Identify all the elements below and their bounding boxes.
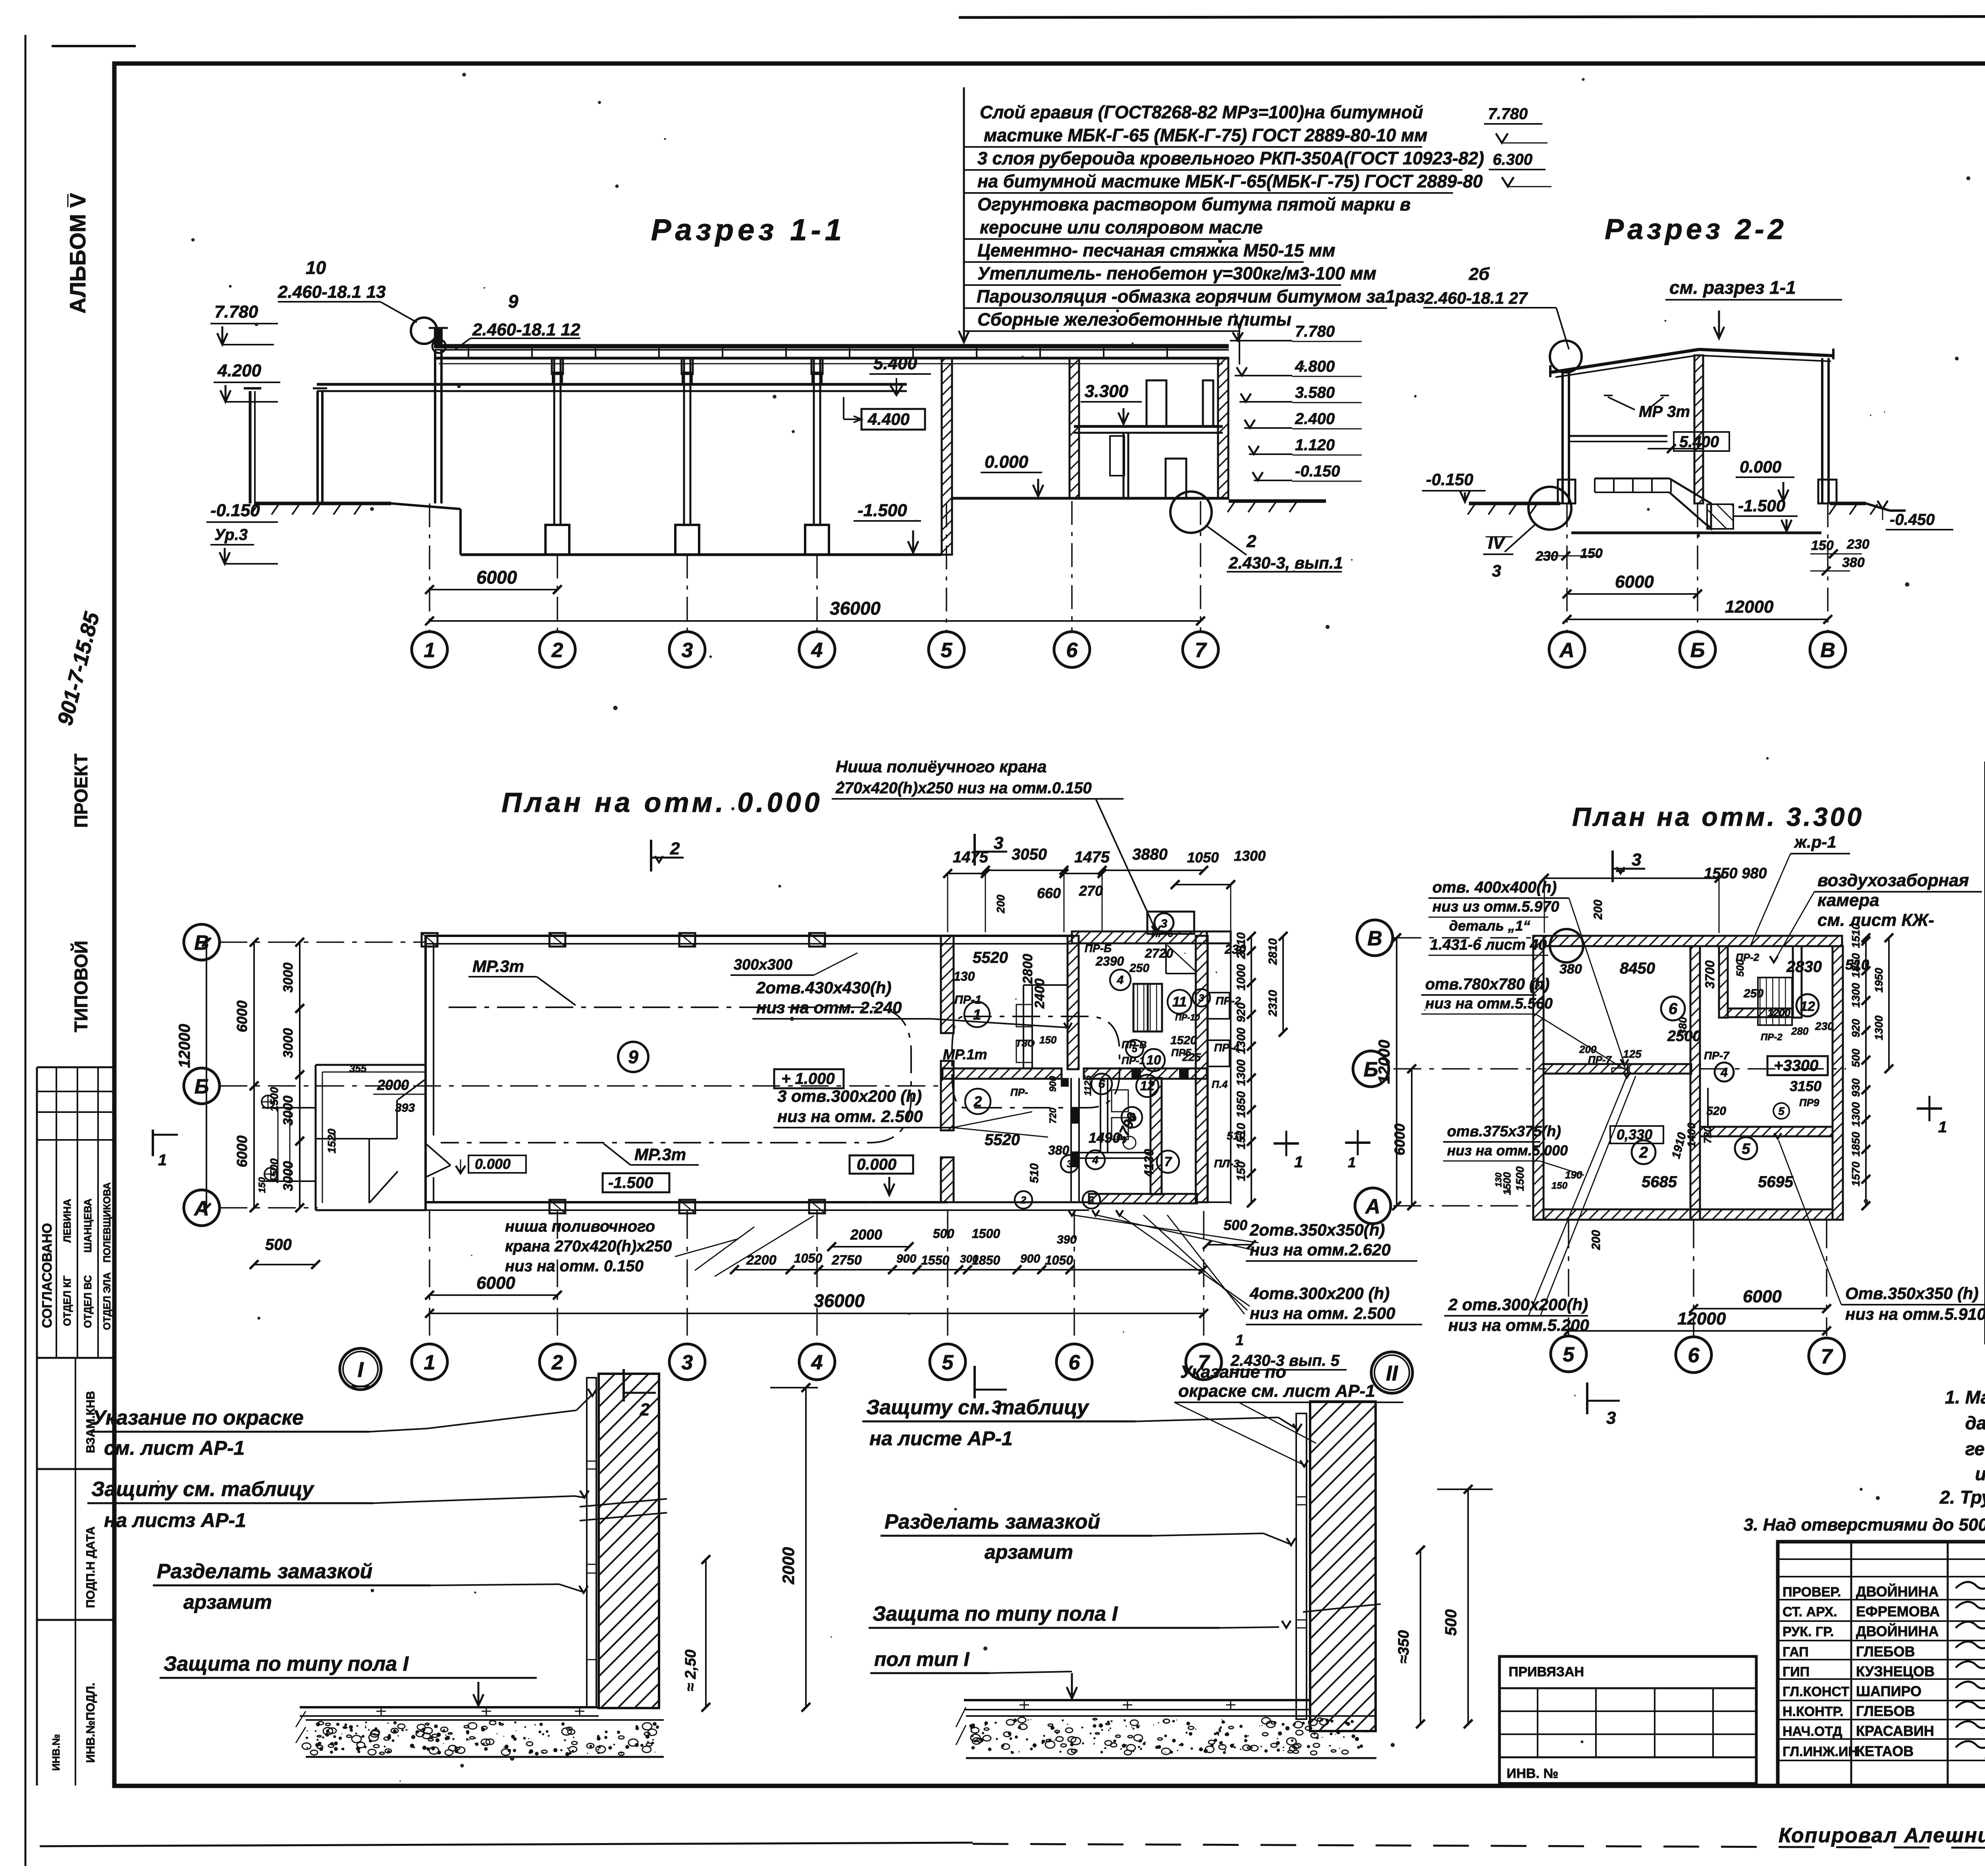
svg-text:см. лист КЖ-: см. лист КЖ- — [1817, 910, 1934, 930]
plan0 room circle 2 — [965, 1089, 991, 1114]
section 1-1 axis circle 7 — [1183, 632, 1218, 667]
section 1-1 basement floor — [461, 553, 942, 556]
svg-text:200: 200 — [1592, 900, 1605, 920]
svg-text:10: 10 — [306, 257, 326, 278]
svg-text:мастике МБК-Г-65 (МБК-Г-75) Г: мастике МБК-Г-65 (МБК-Г-75) ГОСТ 2889-80… — [984, 125, 1428, 145]
plan0 partition 2580 — [1023, 985, 1024, 1069]
svg-text:1850: 1850 — [1850, 953, 1862, 978]
svg-text:географической широты 50° д: географической широты 50° для Европейско… — [1965, 1438, 1985, 1459]
plan33 axis line A — [1393, 1205, 1536, 1207]
section 1-1 wall axis 7 hatched — [1218, 358, 1228, 498]
plan33 axis circle V — [1357, 920, 1393, 956]
svg-text:1510: 1510 — [1235, 1123, 1248, 1149]
svg-text:1520: 1520 — [1170, 1034, 1197, 1047]
section 1-1 mezzanine floor — [1074, 425, 1223, 428]
svg-text:ГЛ.ИНЖ.ИН: ГЛ.ИНЖ.ИН — [1783, 1744, 1858, 1759]
svg-text:РУК. ГР.: РУК. ГР. — [1783, 1624, 1834, 1639]
plan0 small piers — [1061, 1078, 1069, 1087]
section 1-1 level ladder right — [1230, 340, 1292, 341]
svg-text:дана для районов строительс: дана для районов строительства, располож… — [1965, 1413, 1985, 1433]
svg-text:воздухозаборная: воздухозаборная — [1817, 871, 1969, 890]
svg-text:6000: 6000 — [1743, 1287, 1782, 1306]
plan33 cut mark 1 right — [1917, 1107, 1942, 1110]
svg-text:низ на отм.2.620: низ на отм.2.620 — [1250, 1240, 1391, 1259]
plan33 axis circle 7 — [1809, 1338, 1844, 1374]
svg-text:6000: 6000 — [476, 1273, 515, 1293]
plan0 room circle 9 — [618, 1042, 648, 1072]
svg-text:низ на отм.5.910: низ на отм.5.910 — [1845, 1305, 1985, 1323]
plan0 stair main — [1133, 984, 1162, 1032]
svg-text:230: 230 — [1815, 1020, 1834, 1032]
svg-text:3: 3 — [994, 833, 1003, 853]
svg-text:280: 280 — [1791, 1025, 1809, 1037]
svg-text:2: 2 — [973, 1093, 982, 1110]
svg-text:2: 2 — [551, 639, 563, 662]
svg-text:окраске см. лист АР-1: окраске см. лист АР-1 — [1178, 1381, 1375, 1401]
svg-text:ИНВ.№ПОДЛ.: ИНВ.№ПОДЛ. — [84, 1683, 97, 1763]
plan33 wall vert mid — [1690, 946, 1700, 1220]
svg-text:отв.780х780 (h): отв.780х780 (h) — [1425, 976, 1549, 993]
svg-text:6000: 6000 — [476, 567, 517, 588]
section 2-2 stair — [1595, 478, 1669, 480]
svg-text:5685: 5685 — [1642, 1173, 1677, 1191]
sheet outer edge left — [25, 35, 27, 1866]
plan0 room circle 11 — [1168, 990, 1191, 1014]
plan33 room circle 5b — [1773, 1103, 1789, 1119]
svg-text:Указание по: Указание по — [1180, 1362, 1286, 1382]
svg-text:3: 3 — [1199, 993, 1204, 1004]
svg-text:500: 500 — [1224, 1217, 1247, 1233]
svg-text:ИНВ.№: ИНВ.№ — [50, 1734, 62, 1771]
svg-text:150: 150 — [1580, 546, 1603, 561]
left stamp top — [37, 1066, 114, 1068]
svg-text:4: 4 — [1092, 1154, 1098, 1166]
section 1-1 wall axis 1 — [434, 349, 436, 503]
svg-text:130: 130 — [954, 969, 975, 983]
section 2-2 axis A — [1549, 632, 1585, 667]
svg-text:500: 500 — [933, 1226, 954, 1241]
plan0 bottom wall right hatched — [1089, 1194, 1197, 1203]
svg-text:1300: 1300 — [1850, 1102, 1862, 1127]
svg-text:6: 6 — [1669, 1000, 1678, 1018]
plan0 monorail MP3t loop — [441, 1007, 911, 1143]
svg-text:900: 900 — [1048, 1076, 1058, 1092]
svg-text:2: 2 — [670, 839, 680, 858]
svg-text:270: 270 — [1079, 883, 1103, 899]
svg-text:ПР-В: ПР-В — [1122, 1039, 1147, 1051]
svg-text:130: 130 — [1494, 1172, 1503, 1187]
svg-text:4.200: 4.200 — [217, 361, 262, 380]
plan33 axis circle 6 — [1676, 1337, 1711, 1373]
svg-text:150: 150 — [1811, 538, 1834, 553]
section 2-2 axis V — [1810, 632, 1846, 667]
left stamp divider vzam — [75, 1358, 76, 1785]
svg-text:900: 900 — [1020, 1252, 1040, 1265]
svg-text:1. Марка кровельной мастики: 1. Марка кровельной мастики в скобках (с… — [1945, 1387, 1985, 1407]
plan33 left wall — [1533, 936, 1544, 1220]
svg-text:ДВОЙНИНА: ДВОЙНИНА — [1856, 1623, 1939, 1639]
svg-text:на листз АР-1: на листз АР-1 — [104, 1509, 246, 1531]
svg-text:ГИП: ГИП — [1783, 1664, 1810, 1679]
plan0 axis stubs bottom — [429, 1211, 430, 1344]
section 2-2 ground — [1469, 502, 1560, 505]
section 2-2 wall B hatched — [1694, 355, 1703, 503]
plan0 top wall column marks — [422, 933, 437, 947]
plan0 top wall right hatched — [1072, 931, 1207, 943]
svg-text:-1.500: -1.500 — [1738, 496, 1785, 515]
svg-text:380: 380 — [1677, 1017, 1689, 1035]
svg-text:1.431-6 лист 40: 1.431-6 лист 40 — [1430, 937, 1547, 953]
svg-text:1500: 1500 — [268, 1087, 280, 1112]
svg-text:250: 250 — [1129, 962, 1149, 975]
plan0 axis circle 4 — [799, 1344, 835, 1380]
svg-text:камера: камера — [1817, 891, 1879, 910]
svg-text:6: 6 — [1069, 1351, 1081, 1374]
svg-text:660: 660 — [1037, 885, 1061, 901]
plan0 cut mark 2 top — [650, 840, 652, 871]
svg-text:ПОДП.Н ДАТА: ПОДП.Н ДАТА — [84, 1527, 97, 1608]
plan0 axis circle A — [184, 1190, 220, 1226]
svg-text:190: 190 — [1565, 1169, 1582, 1181]
section 1-1 annex post — [316, 391, 319, 503]
plan0 bottom chain — [734, 1269, 1203, 1271]
svg-text:4отв.300х200 (h): 4отв.300х200 (h) — [1249, 1284, 1389, 1303]
section 1-1 dim 36000 — [430, 620, 1201, 622]
svg-text:200: 200 — [994, 895, 1007, 914]
svg-text:Б: Б — [1690, 639, 1705, 662]
svg-text:9: 9 — [628, 1047, 638, 1067]
section 2-2 detail ring IV — [1528, 487, 1571, 530]
svg-text:1950: 1950 — [1873, 968, 1885, 993]
plan33 partition small — [1627, 1064, 1628, 1074]
plan33 room circle 12 — [1796, 994, 1819, 1016]
svg-text:1475: 1475 — [1074, 848, 1110, 866]
detail II concrete bed — [966, 1715, 1376, 1717]
svg-text:ГЛЕБОВ: ГЛЕБОВ — [1856, 1643, 1915, 1660]
section 2-2 callout ring — [1550, 341, 1582, 372]
section 2-2 roof — [1550, 349, 1699, 372]
plan33 cut mark 3 bottom — [1586, 1382, 1588, 1414]
svg-text:ОТДЕЛ КГ: ОТДЕЛ КГ — [61, 1275, 73, 1326]
plan0 axis circle 3 — [669, 1344, 705, 1380]
svg-text:+3300: +3300 — [1774, 1057, 1818, 1074]
svg-text:12000: 12000 — [1677, 1309, 1726, 1328]
svg-text:250: 250 — [1743, 987, 1763, 1000]
plan0 axis circle 1 — [412, 1344, 447, 1380]
section 1-1 ground left — [254, 502, 391, 505]
svg-text:ПРОЕКТ: ПРОЕКТ — [71, 754, 91, 828]
svg-text:4.800: 4.800 — [1295, 358, 1335, 375]
svg-text:36000: 36000 — [814, 1290, 865, 1311]
svg-text:12: 12 — [1140, 1078, 1155, 1093]
svg-text:3.300: 3.300 — [1085, 382, 1129, 401]
svg-text:2810: 2810 — [1266, 938, 1280, 965]
svg-text:ПР9: ПР9 — [1799, 1097, 1819, 1109]
svg-text:1510: 1510 — [1850, 923, 1862, 948]
svg-text:3. Над отверстиями до 500 мм: 3. Над отверстиями до 500 мм уложить ряд… — [1744, 1515, 1985, 1535]
svg-text:ОТДЕЛ ВС: ОТДЕЛ ВС — [82, 1275, 94, 1328]
svg-text:0.000: 0.000 — [985, 452, 1029, 472]
svg-text:3000: 3000 — [281, 1028, 296, 1058]
svg-text:393: 393 — [395, 1101, 415, 1114]
svg-text:арзамит: арзамит — [183, 1591, 272, 1613]
svg-text:Утеплитель- пенобетон γ=300кг/: Утеплитель- пенобетон γ=300кг/м3-100 мм — [977, 263, 1376, 283]
plan0 right dim chain2 — [1282, 936, 1284, 1032]
plan0 right wall hatched — [1196, 936, 1208, 1202]
svg-text:1200: 1200 — [1767, 1007, 1790, 1019]
plan33 axis line V — [1393, 937, 1536, 939]
plan0 mid wall hatched — [942, 1068, 1062, 1079]
svg-text:низ на отм. 0.150: низ на отм. 0.150 — [505, 1257, 644, 1275]
svg-text:4.400: 4.400 — [867, 410, 910, 428]
plan33 cut mark 3 top — [1611, 850, 1614, 882]
svg-text:150: 150 — [1551, 1180, 1568, 1191]
plan33 right dim line2 — [1888, 938, 1890, 1069]
svg-text:2отв.430х430(h): 2отв.430х430(h) — [756, 978, 892, 997]
svg-text:2.460-18.1 13: 2.460-18.1 13 — [278, 282, 386, 302]
svg-text:1125: 1125 — [1083, 1075, 1093, 1096]
svg-text:7.780: 7.780 — [1295, 323, 1335, 340]
svg-text:2.460-18.1 12: 2.460-18.1 12 — [472, 320, 580, 339]
svg-text:АЛЬБОМ V̅: АЛЬБОМ V̅ — [65, 193, 90, 314]
svg-text:ПР-2: ПР-2 — [1761, 1032, 1783, 1043]
svg-text:6000: 6000 — [1615, 572, 1654, 592]
plan0 axis circle 2 — [540, 1344, 575, 1380]
section 2-2 level -0.450 — [1877, 501, 1888, 509]
plan33 right dim chain — [1865, 938, 1867, 1206]
svg-text:3: 3 — [1606, 1408, 1616, 1428]
svg-text:Защиту см. таблицу: Защиту см. таблицу — [91, 1478, 315, 1501]
svg-text:510: 510 — [1028, 1163, 1041, 1183]
svg-text:+ 1.000: + 1.000 — [781, 1070, 835, 1087]
plan0 room circle 3 — [1083, 1191, 1100, 1209]
plan0 wall vert 2700 lower — [1070, 1078, 1072, 1202]
svg-text:355: 355 — [349, 1062, 367, 1074]
scan specks — [413, 1747, 415, 1749]
svg-text:ПР-Б: ПР-Б — [1085, 942, 1112, 954]
section 2-2 interior mez — [1570, 435, 1667, 437]
svg-text:отв. 400х400(h): отв. 400х400(h) — [1432, 879, 1557, 896]
svg-text:Н.КОНТР.: Н.КОНТР. — [1783, 1704, 1844, 1719]
svg-text:3: 3 — [682, 1351, 693, 1374]
titleblock verticals — [1850, 1542, 1852, 1785]
section 1-1 crane beam ticks — [553, 372, 562, 384]
svg-text:ТИПОВОЙ: ТИПОВОЙ — [71, 941, 91, 1032]
svg-text:2.400: 2.400 — [1295, 410, 1335, 428]
svg-text:ПР-10: ПР-10 — [1175, 1012, 1200, 1022]
detail II floor slab — [964, 1699, 1310, 1701]
svg-text:Защиту см. таблицу: Защиту см. таблицу — [866, 1396, 1090, 1419]
plan33 air chamber grille — [1758, 978, 1792, 1025]
svg-text:7: 7 — [1164, 1154, 1172, 1169]
section 1-1 callout ring 10 — [411, 318, 437, 344]
svg-text:ГАП: ГАП — [1783, 1645, 1809, 1660]
plan0 top wall — [426, 935, 1072, 937]
detail I vdim 2000 — [805, 1388, 807, 1707]
detail I facing panels — [587, 1378, 596, 1707]
detail II wall hatched — [1310, 1402, 1376, 1731]
svg-text:Разрез 1-1: Разрез 1-1 — [651, 213, 846, 247]
svg-text:500: 500 — [1850, 1049, 1862, 1067]
svg-text:2800: 2800 — [1020, 954, 1035, 984]
svg-text:8450: 8450 — [1620, 960, 1655, 977]
plan0 dim 36000 bottom — [430, 1313, 1204, 1314]
svg-text:1520: 1520 — [326, 1128, 338, 1153]
svg-text:2: 2 — [1246, 532, 1257, 551]
svg-text:0.000: 0.000 — [1740, 457, 1781, 476]
svg-text:1500: 1500 — [1514, 1166, 1526, 1191]
svg-text:520: 520 — [1706, 1105, 1726, 1118]
section 1-1 door upper b — [1203, 380, 1213, 426]
privyazan columns — [1537, 1688, 1538, 1757]
section 1-1 axis circle 4 — [799, 632, 835, 667]
svg-text:1550: 1550 — [921, 1253, 949, 1267]
svg-text:2390: 2390 — [1095, 954, 1124, 968]
svg-text:План на отм. 3.300: План на отм. 3.300 — [1572, 802, 1864, 831]
plan0 top niche box — [1147, 912, 1194, 934]
plan33 top dim — [1544, 877, 1719, 879]
svg-text:Ур.3: Ур.3 — [214, 526, 248, 544]
svg-text:3: 3 — [682, 639, 693, 662]
plan0 bottom wall left thin — [948, 1201, 1089, 1203]
section 1-1 wall axis 6 hatched — [1070, 358, 1079, 498]
svg-text:150: 150 — [1235, 1161, 1248, 1181]
svg-text:1050: 1050 — [1187, 849, 1219, 866]
plan0 detail circle II — [1371, 1352, 1413, 1393]
plan0 room circle 7 — [1157, 1151, 1179, 1173]
svg-text:5520: 5520 — [973, 949, 1008, 966]
plan33 axis circle B — [1353, 1051, 1389, 1087]
svg-text:5.400: 5.400 — [1679, 433, 1719, 451]
svg-text:4: 4 — [811, 1351, 823, 1374]
svg-text:В: В — [1367, 927, 1382, 950]
svg-text:12000: 12000 — [176, 1024, 193, 1068]
svg-text:А: А — [1364, 1195, 1380, 1218]
svg-text:5695: 5695 — [1758, 1173, 1794, 1191]
svg-text:1.120: 1.120 — [1295, 436, 1335, 454]
svg-text:7: 7 — [1195, 639, 1207, 662]
svg-text:-0.150: -0.150 — [1426, 470, 1473, 489]
svg-text:ДВОЙНИНА: ДВОЙНИНА — [1856, 1583, 1939, 1600]
svg-text:2отв.350х350(h): 2отв.350х350(h) — [1249, 1220, 1385, 1239]
left stamp vertical dividers — [56, 1067, 57, 1358]
svg-text:Пароизоляция -обмазка горячим: Пароизоляция -обмазка горячим битумом за… — [977, 286, 1425, 307]
plan0 bottom wall — [426, 1201, 948, 1203]
svg-text:Защита по типу пола I: Защита по типу пола I — [873, 1602, 1118, 1625]
section 1-1 detail ring 2 — [1170, 492, 1212, 533]
svg-text:1300: 1300 — [1873, 1015, 1885, 1040]
svg-text:А: А — [1559, 639, 1575, 662]
detail I vdim 250 — [705, 1560, 707, 1707]
svg-text:720: 720 — [1048, 1107, 1058, 1124]
svg-text:1500: 1500 — [268, 1158, 280, 1183]
plan0 survey cross b — [264, 1168, 277, 1180]
plan0 room circle 12 — [1136, 1075, 1158, 1097]
svg-text:В: В — [1820, 639, 1835, 662]
section 2-2 wall A — [1561, 372, 1564, 503]
svg-text:2810: 2810 — [1235, 932, 1248, 959]
svg-text:1000: 1000 — [1235, 964, 1248, 991]
plan0 room circle 3 — [1193, 989, 1210, 1006]
plan0 survey cross a — [262, 1095, 274, 1108]
svg-text:Указание по окраске: Указание по окраске — [92, 1406, 304, 1429]
plan33 axis circle A — [1355, 1188, 1391, 1224]
svg-text:1300: 1300 — [1234, 848, 1266, 864]
svg-text:крана 270х420(h)х250: крана 270х420(h)х250 — [505, 1238, 672, 1255]
plan0 leader fan — [1072, 1215, 1258, 1243]
svg-text:1: 1 — [1938, 1118, 1947, 1136]
svg-text:2б: 2б — [1469, 264, 1490, 284]
section 1-1 door lower — [1166, 459, 1186, 498]
svg-text:Огрунтовка раствором битума пя: Огрунтовка раствором битума пятой марки … — [977, 194, 1411, 214]
section 1-1 ground step — [459, 509, 462, 555]
plan0 box 0.000 annex — [468, 1155, 526, 1173]
titleblock outer — [1778, 1542, 1985, 1785]
plan0 annex partition — [316, 1138, 397, 1139]
svg-text:Защита по типу пола I: Защита по типу пола I — [164, 1652, 409, 1675]
svg-text:200: 200 — [1590, 1230, 1603, 1250]
svg-text:500: 500 — [1734, 959, 1746, 977]
plan33 room circle 6 — [1661, 997, 1685, 1020]
svg-text:3700: 3700 — [1703, 960, 1717, 989]
svg-text:П.4: П.4 — [1212, 1078, 1228, 1090]
svg-text:12: 12 — [1800, 999, 1815, 1014]
svg-text:380: 380 — [1842, 555, 1865, 570]
left stamp soglasovano bottom — [37, 1357, 114, 1359]
svg-text:арзамит: арзамит — [985, 1541, 1073, 1563]
svg-text:≈350: ≈350 — [1395, 1630, 1412, 1664]
plan33 bottom wall — [1544, 1209, 1833, 1220]
svg-text:3000: 3000 — [281, 1161, 296, 1191]
svg-text:ПР-7: ПР-7 — [1704, 1049, 1730, 1062]
svg-text:ИНВ. №: ИНВ. № — [1507, 1766, 1558, 1781]
svg-text:отв.375х375(h): отв.375х375(h) — [1447, 1123, 1561, 1140]
sheet outer edge top — [959, 16, 1985, 17]
svg-text:низ на отм.5.000: низ на отм.5.000 — [1447, 1142, 1568, 1159]
svg-text:930: 930 — [1850, 1078, 1862, 1097]
svg-text:920: 920 — [1235, 1003, 1248, 1022]
section 1-1 axis circle 2 — [540, 632, 575, 667]
svg-text:ПР-7: ПР-7 — [1588, 1054, 1612, 1066]
svg-text:3150: 3150 — [1790, 1078, 1821, 1094]
svg-text:НАЧ.ОТД: НАЧ.ОТД — [1783, 1724, 1842, 1739]
plan0 room circle 5 — [1126, 1040, 1143, 1057]
svg-text:2000: 2000 — [779, 1547, 798, 1585]
svg-text:1400: 1400 — [1685, 1122, 1698, 1147]
left stamp outer line — [36, 1067, 38, 1785]
svg-text:2000: 2000 — [850, 1226, 882, 1243]
svg-text:6: 6 — [1066, 639, 1078, 662]
section 1-1 dim 6000 — [430, 589, 557, 590]
svg-text:3000: 3000 — [281, 1095, 296, 1126]
svg-text:0.000: 0.000 — [475, 1156, 511, 1172]
svg-text:и 53° для Азиатской част: и 53° для Азиатской частей СССР — [1975, 1463, 1985, 1484]
plan0 door frames right — [1207, 993, 1230, 1019]
plan0 arrow at 0.000 — [888, 1177, 890, 1195]
plan33 left dim 12000 — [1396, 938, 1397, 1206]
svg-text:380: 380 — [1559, 962, 1582, 977]
privyazan table outer — [1499, 1656, 1756, 1783]
plan0 wall axis5 hatched — [941, 936, 954, 1033]
detail I break marks — [580, 1499, 667, 1507]
section 1-1 column axis 3 — [683, 358, 685, 525]
plan33 top wall — [1544, 936, 1842, 946]
svg-text:6000: 6000 — [234, 1001, 250, 1032]
svg-text:ГЛ.КОНСТ: ГЛ.КОНСТ — [1783, 1684, 1849, 1699]
svg-text:1300: 1300 — [1235, 1059, 1248, 1086]
svg-text:-1.500: -1.500 — [608, 1174, 653, 1192]
svg-text:1: 1 — [1348, 1154, 1356, 1170]
